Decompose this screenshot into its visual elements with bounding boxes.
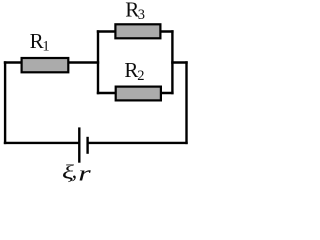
svg-text:r: r bbox=[78, 160, 91, 185]
svg-text:3: 3 bbox=[138, 7, 145, 23]
svg-text:1: 1 bbox=[42, 38, 49, 54]
svg-text:,: , bbox=[72, 158, 78, 183]
svg-text:2: 2 bbox=[137, 68, 144, 84]
